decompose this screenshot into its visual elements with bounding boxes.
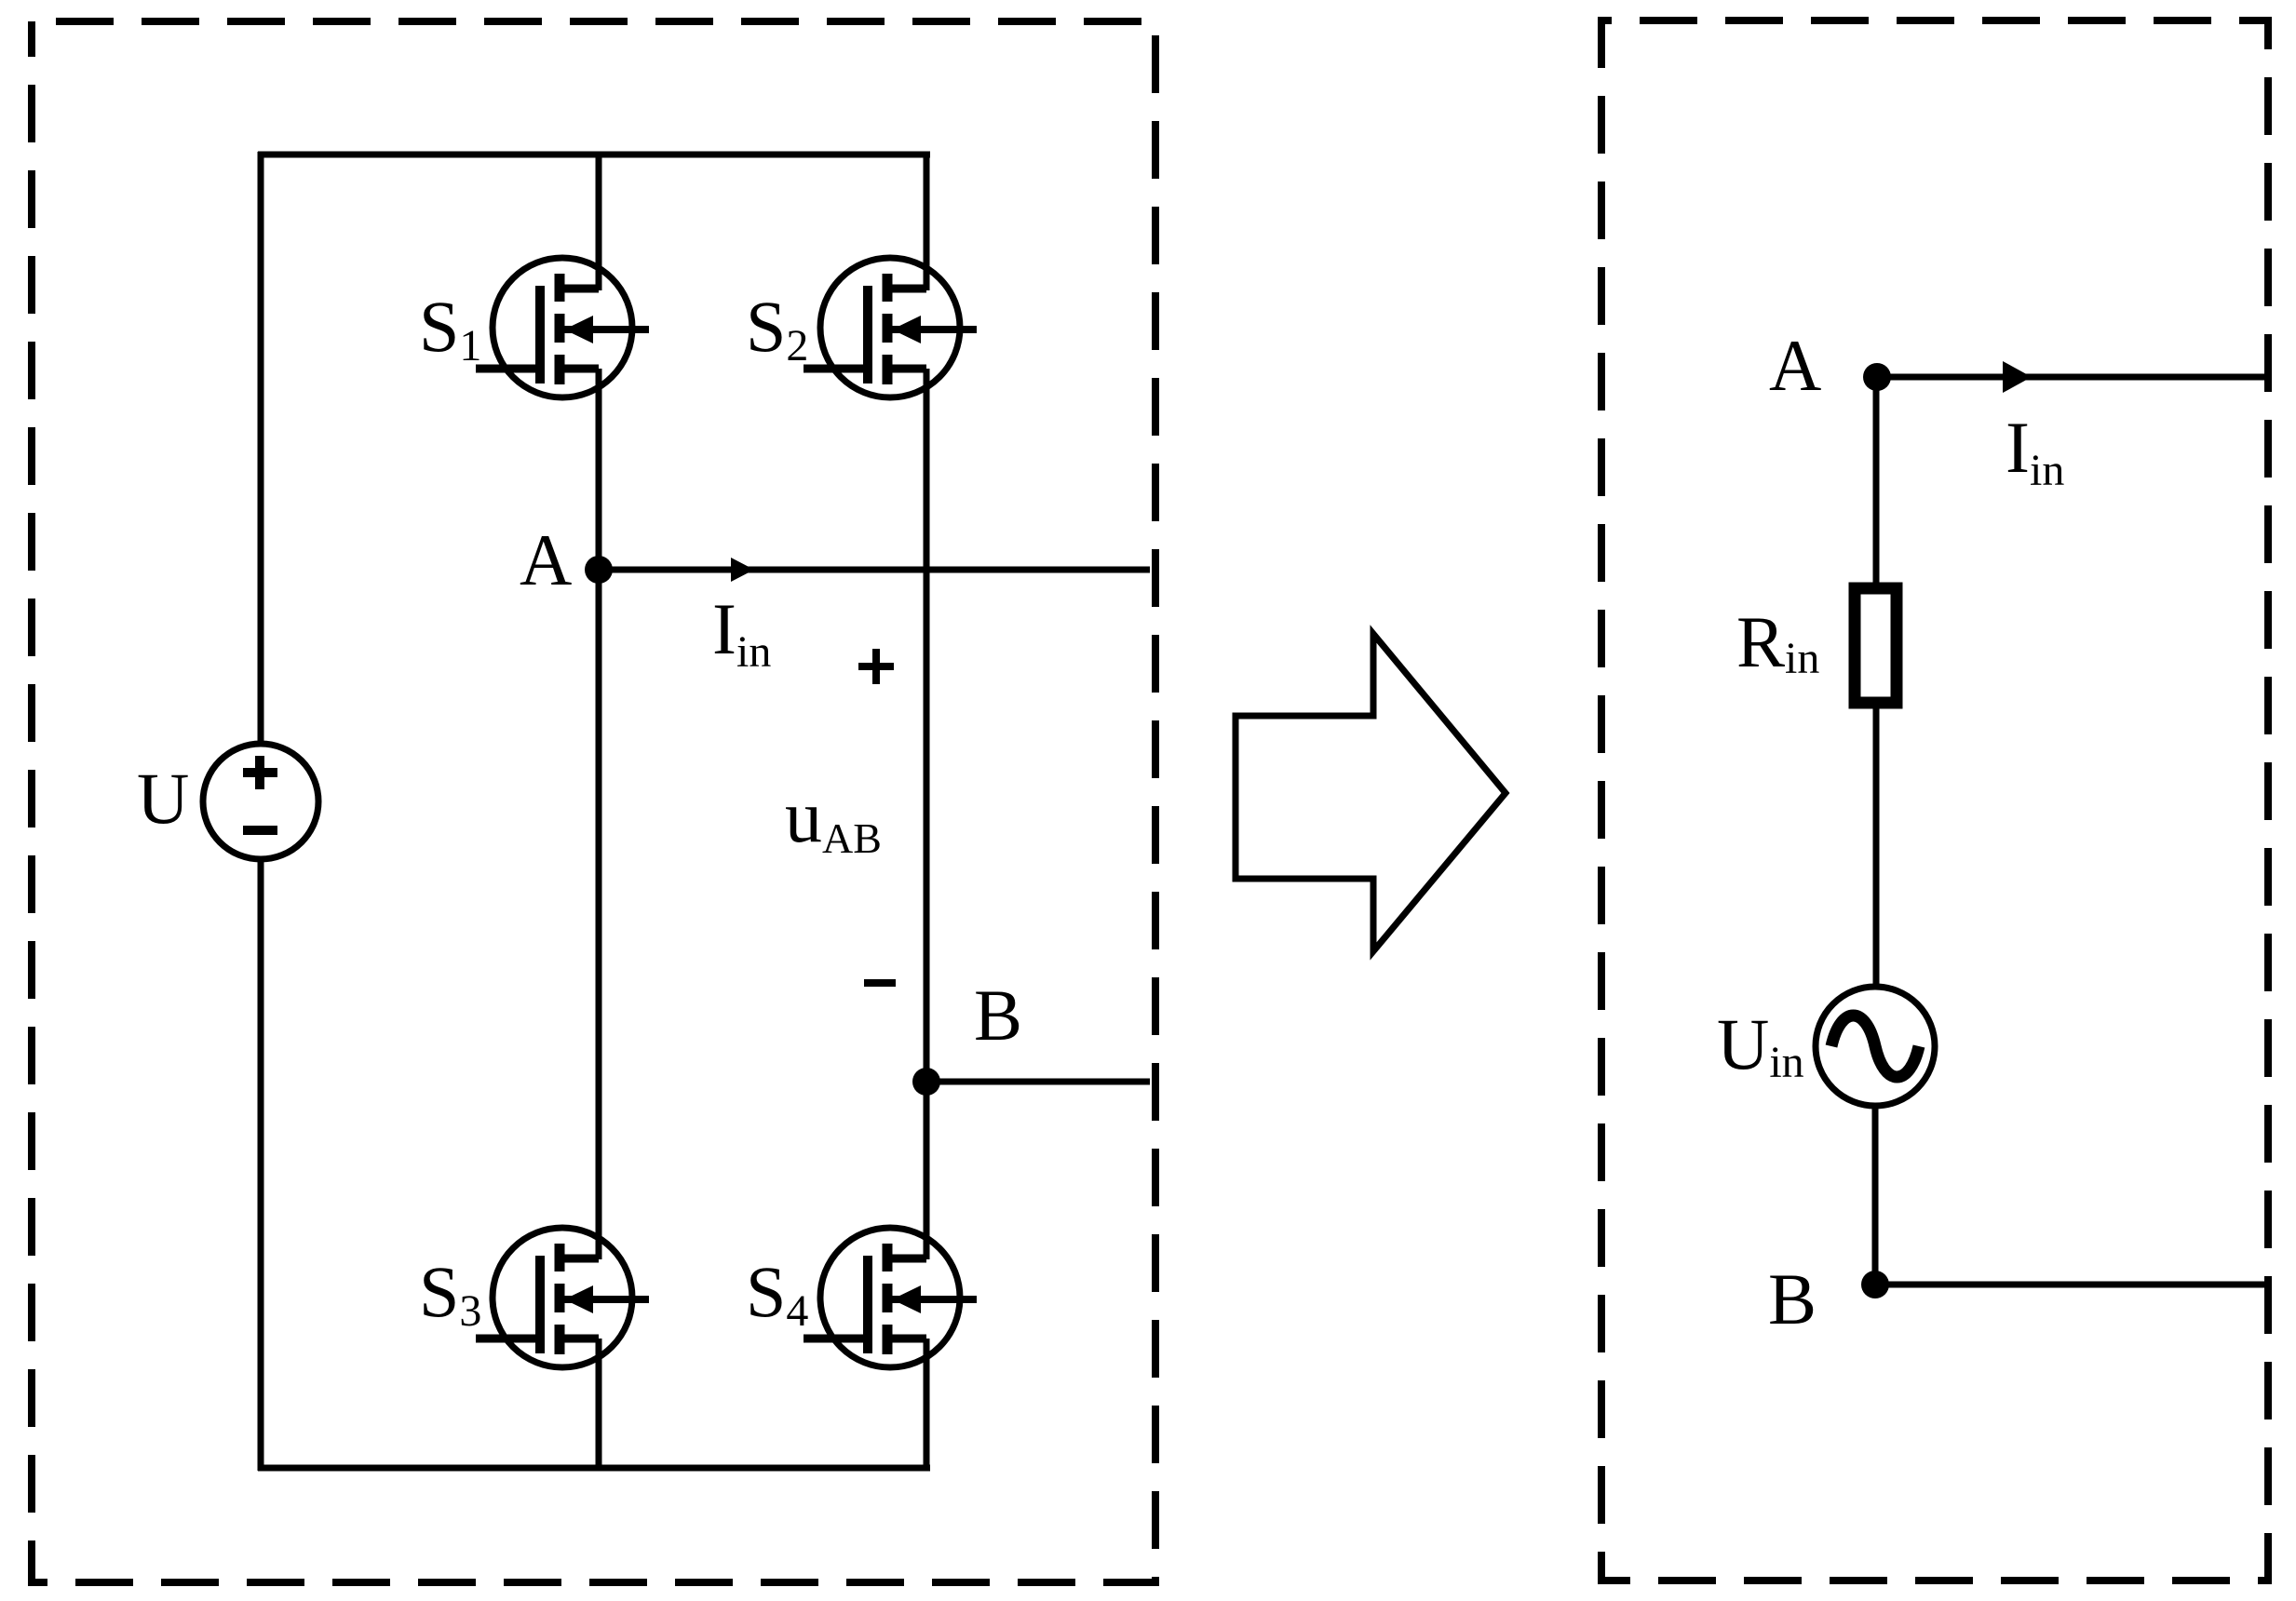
label - (u_AB polarity)	[864, 979, 896, 987]
voltage source U	[203, 744, 318, 859]
wire: node B to right edge	[1875, 1282, 2268, 1288]
wire: left rail lower	[258, 858, 264, 1471]
wire: phase leg A lower	[596, 1339, 602, 1471]
wire: DC bus top	[258, 152, 930, 158]
wire: DC bus bottom	[258, 1465, 930, 1472]
AC source U_in	[1816, 987, 1935, 1106]
transistor S2	[804, 258, 977, 397]
node A (equivalent circuit)	[1863, 363, 1891, 391]
wire: resistor to AC source	[1873, 706, 1880, 989]
block arrow (transformation)	[1236, 634, 1506, 951]
resistor R_in	[1855, 588, 1897, 703]
dashed box: equivalent input circuit	[1601, 20, 2268, 1581]
wire: output A with current arrow	[599, 558, 1150, 582]
label + (u_AB polarity)	[858, 649, 894, 684]
dashed box: full-bridge inverter	[32, 21, 1155, 1582]
transistor S1	[476, 258, 649, 397]
svg-text:B: B	[974, 975, 1022, 1056]
wire: AC source to node B	[1872, 1105, 1879, 1285]
wire: left rail upper	[258, 152, 264, 745]
svg-text:A: A	[1769, 325, 1821, 406]
svg-text:B: B	[1768, 1258, 1817, 1339]
wire: phase leg A upper	[596, 155, 602, 290]
node B	[912, 1068, 940, 1096]
wire: phase leg B upper	[924, 155, 930, 290]
transistor S3	[476, 1228, 649, 1367]
svg-text:A: A	[520, 519, 572, 600]
wire: node A down to resistor	[1873, 377, 1880, 585]
wire: phase leg A middle	[596, 369, 602, 1259]
node B (equivalent circuit)	[1861, 1271, 1889, 1298]
node A	[585, 556, 613, 584]
svg-text:U: U	[137, 758, 189, 839]
wire: output B	[926, 1079, 1150, 1085]
wire: phase leg B middle	[924, 369, 930, 1259]
wire: node A to right edge with current arrow	[1877, 361, 2268, 393]
wire: phase leg B lower	[924, 1339, 930, 1471]
transistor S4	[804, 1228, 977, 1367]
